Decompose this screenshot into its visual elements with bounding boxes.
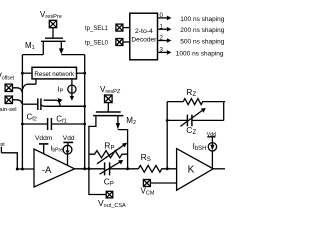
wire Vout_CSA branch — [89, 169, 106, 195]
wire Cp to Rs — [110, 168, 139, 170]
capacitor Cf2 — [38, 98, 41, 110]
svg-text:Decoder: Decoder — [131, 37, 157, 44]
wire Voffset to bus (merge) — [13, 88, 23, 93]
junction feedback node — [166, 167, 169, 170]
supply Vdd bar (IbSH) — [207, 136, 215, 138]
wire reset box left — [22, 72, 32, 74]
transistor M2 — [89, 112, 128, 169]
wire reset box right — [77, 72, 85, 74]
Cz variable arrow — [180, 108, 205, 126]
junction output / PZ left — [87, 167, 90, 170]
wire VCM to K — [150, 182, 176, 184]
svg-text:100 ns shaping: 100 ns shaping — [180, 16, 224, 23]
pad VCM — [143, 180, 150, 187]
junction right bus / reset — [83, 72, 86, 75]
wire -A output — [75, 168, 105, 170]
svg-text:Vddm: Vddm — [35, 135, 53, 142]
wire bus to Cf1 — [22, 123, 47, 125]
pad VresPZ — [105, 95, 113, 103]
resistor Rp — [89, 151, 128, 158]
svg-text:Vdd: Vdd — [63, 135, 75, 142]
junction left bus / reset — [21, 72, 24, 75]
wire VresPZ pad to M2 gate — [107, 103, 109, 112]
current source IbPre — [63, 145, 72, 165]
pad tp_SEL0 — [116, 39, 123, 46]
op-amp -A — [34, 149, 75, 187]
junction Cz branch — [166, 119, 169, 122]
supply Vdd bar — [63, 141, 73, 143]
transistor M1 — [41, 38, 66, 54]
pad Vout_CSA — [106, 191, 113, 198]
decoder output 2 — [158, 38, 172, 43]
svg-text:K: K — [188, 165, 195, 176]
decoder box — [130, 13, 158, 60]
pad tp_SEL1 — [116, 24, 123, 31]
op-amp K — [177, 149, 214, 191]
decoder output 1 — [158, 27, 172, 32]
decoder output 0 — [158, 16, 172, 21]
junction bus / input — [21, 168, 24, 171]
svg-text:2: 2 — [160, 35, 164, 42]
wire M1 source to left bus — [22, 54, 43, 56]
wire Cf1 to right bus — [51, 123, 84, 125]
svg-text:-A: -A — [42, 165, 52, 176]
junction output / right bus — [83, 167, 86, 170]
svg-text:tp_SEL1: tp_SEL1 — [85, 26, 109, 32]
wire feedback right vertical — [223, 102, 225, 121]
supply Vddm bar — [39, 143, 48, 145]
junction switch wire / right bus — [83, 105, 86, 108]
wire gain-sel to bus (merge) — [13, 100, 23, 105]
decoder output 3 — [158, 50, 172, 55]
svg-text:1000 ns shaping: 1000 ns shaping — [176, 50, 224, 57]
wire Vdd to IbPre — [67, 142, 69, 145]
wire VresPre pad to M1 gate — [52, 28, 54, 39]
current source Ip — [68, 79, 76, 101]
wire M1 drain to right bus — [61, 54, 84, 56]
wire right feedback bus — [84, 55, 86, 169]
capacitor Cf1 — [48, 118, 52, 130]
wire left input bus — [21, 55, 23, 169]
wire Cf2 to switch — [41, 105, 85, 107]
wire K output — [213, 168, 225, 170]
reset network box — [32, 67, 77, 79]
svg-text:3: 3 — [160, 47, 164, 54]
Rp variable arrow — [97, 143, 127, 164]
current source IbSH — [208, 137, 216, 169]
junction right bus / Cf1 — [83, 123, 86, 126]
wire Vddm to -A — [43, 144, 45, 154]
svg-text:200 ns shaping: 200 ns shaping — [180, 27, 224, 34]
switch gain select — [44, 98, 63, 106]
resistor Rs — [138, 165, 176, 172]
wire test input to input node — [1, 153, 17, 169]
pad Voffset — [5, 84, 12, 91]
Cp variable arrow — [100, 160, 124, 174]
svg-text:IbPre: IbPre — [50, 145, 63, 153]
pad VresPre — [49, 20, 56, 27]
junction PZ right / output line — [126, 167, 129, 170]
wire switch to right bus — [58, 105, 85, 107]
wire tp_SEL1 to decoder — [123, 27, 130, 29]
test input box edge (clipped) — [0, 147, 2, 153]
wire Rz branch — [167, 99, 225, 105]
wire feedback vertical — [166, 102, 168, 169]
svg-text:Reset network: Reset network — [34, 71, 74, 78]
wire bus to reset box bottom (merge) — [23, 79, 36, 89]
svg-text:tp_SEL0: tp_SEL0 — [85, 40, 109, 46]
capacitor Cp — [105, 162, 110, 175]
pad gain-sel — [5, 96, 12, 103]
wire tp_SEL0 to decoder — [123, 41, 130, 43]
svg-text:gain-sel: gain-sel — [0, 107, 17, 113]
svg-text:1: 1 — [160, 23, 164, 30]
svg-text:2-to-4: 2-to-4 — [135, 28, 153, 35]
junction left bus / Cf1 — [21, 123, 24, 126]
wire bus to Cf2 — [22, 103, 37, 105]
capacitor Cz — [187, 115, 192, 127]
svg-text:500 ns shaping: 500 ns shaping — [180, 39, 224, 46]
wire input to -A — [17, 168, 34, 170]
svg-text:0: 0 — [160, 12, 164, 19]
junction test / input — [16, 168, 19, 171]
wire Cz branch — [167, 119, 224, 121]
